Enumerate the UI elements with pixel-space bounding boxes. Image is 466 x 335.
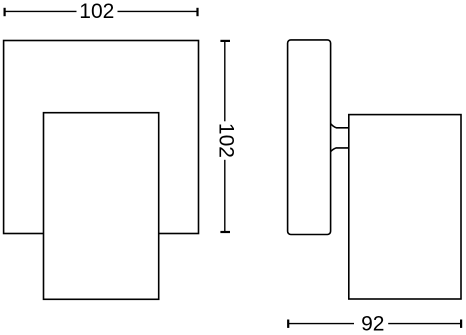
svg-text:92: 92 — [361, 313, 384, 335]
dimension height 102: top tick — [220, 40, 230, 42]
side view: lamp head rectangle — [349, 115, 461, 299]
front view: square backplate outline — [4, 41, 199, 234]
dimension height 102: line top segment — [224, 41, 226, 121]
svg-text:102: 102 — [79, 0, 114, 23]
dimension width 102: right tick — [196, 8, 198, 16]
dimension depth 92: line left segment — [288, 323, 354, 325]
front view: lamp head rectangle (covers square bottom edge) — [44, 113, 159, 300]
side view: wall plate profile — [288, 40, 331, 235]
side view: neck top edge — [331, 124, 349, 128]
svg-text:102: 102 — [215, 123, 238, 158]
dimension height 102: bottom tick — [220, 231, 230, 233]
dimension depth 92: line right segment — [388, 323, 461, 325]
dimension width 102: left tick — [3, 8, 5, 16]
dimension depth 92: left tick — [287, 320, 289, 328]
dimension height 102: line bottom segment — [224, 160, 226, 232]
dimension width 102: line left segment — [5, 10, 77, 12]
side view: neck bottom edge — [331, 148, 349, 152]
dimension depth 92: right tick — [460, 320, 462, 328]
dimension width 102: line right segment — [118, 10, 198, 12]
